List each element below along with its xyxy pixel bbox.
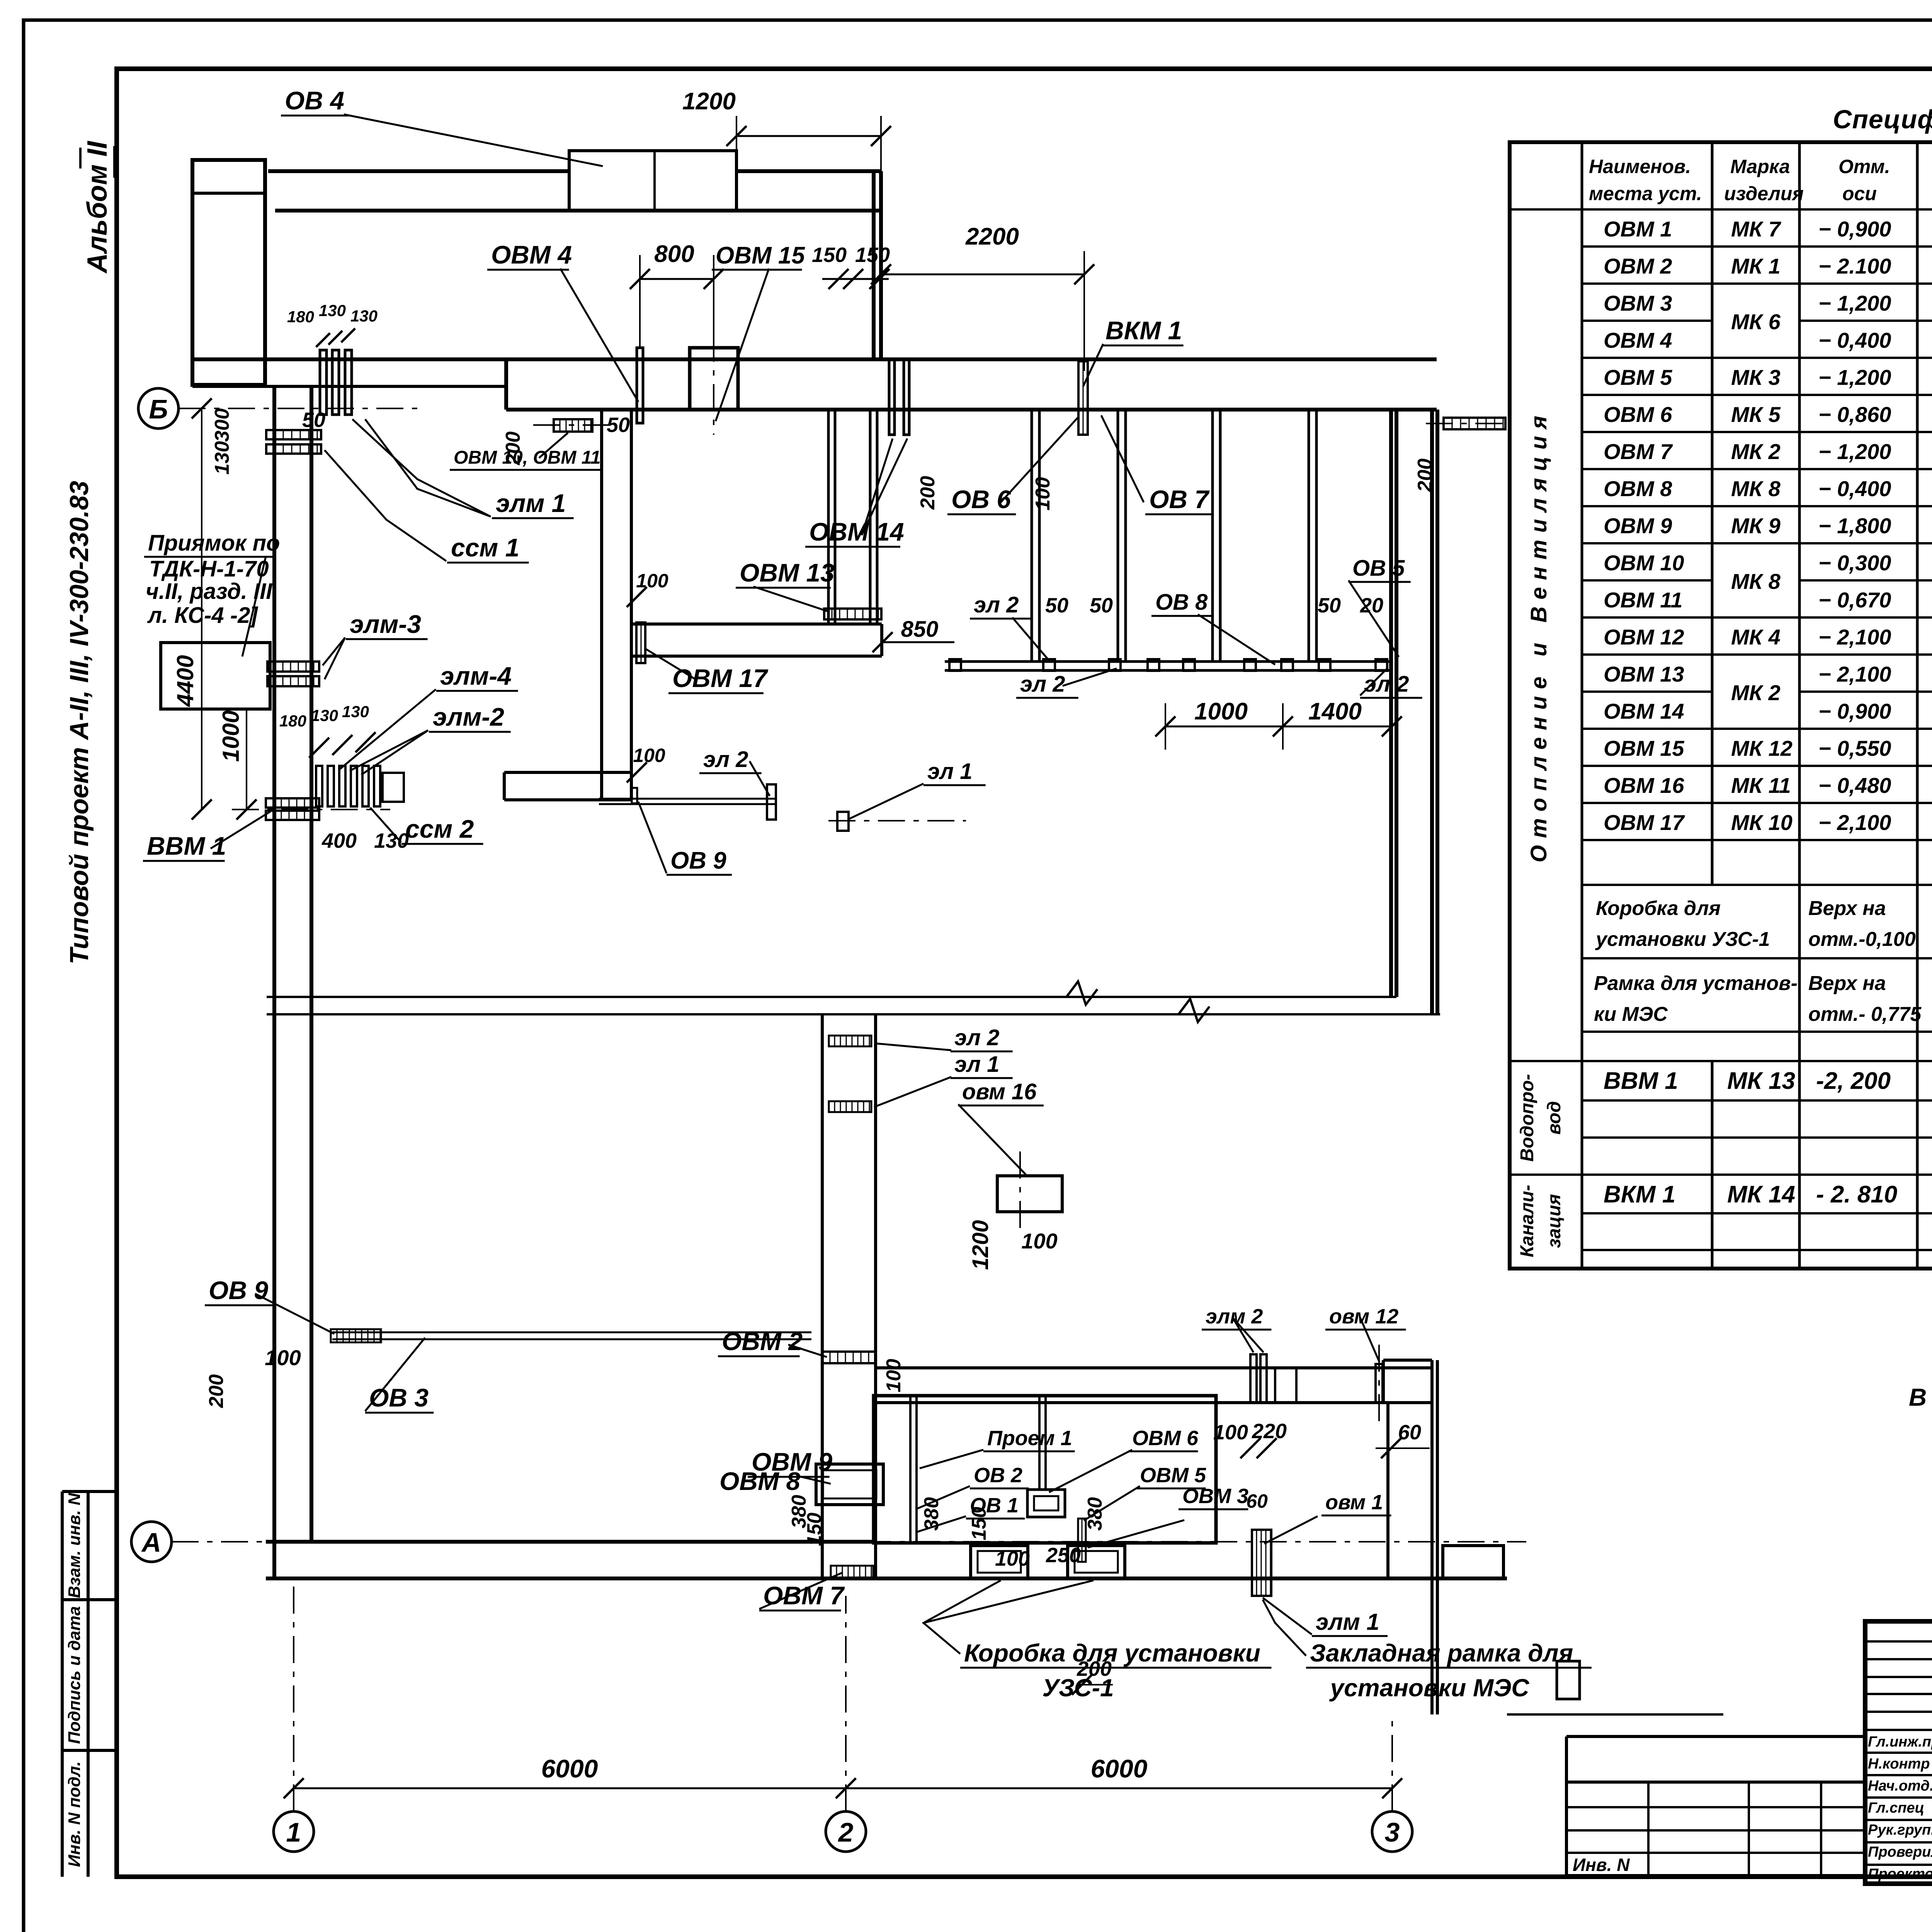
svg-text:100: 100 [995,1547,1030,1570]
svg-text:− 1,200: − 1,200 [1818,439,1891,464]
svg-text:элм 1: элм 1 [496,489,566,517]
svg-text:Нач.отд.: Нач.отд. [1868,1778,1932,1794]
svg-text:элм 2: элм 2 [1206,1305,1263,1328]
svg-text:МК 2: МК 2 [1731,439,1781,464]
svg-text:эл 2: эл 2 [974,592,1019,617]
svg-text:овм 1: овм 1 [1325,1491,1383,1514]
svg-text:МК 7: МК 7 [1731,217,1782,241]
svg-text:ссм 2: ссм 2 [405,815,474,843]
svg-text:380: 380 [1084,1497,1106,1531]
svg-text:2: 2 [838,1817,854,1847]
svg-text:эл 1: эл 1 [954,1052,999,1077]
svg-text:− 0,900: − 0,900 [1818,699,1891,723]
svg-text:100: 100 [633,745,665,766]
svg-text:100: 100 [1032,477,1054,511]
svg-text:Инв. N подл.: Инв. N подл. [65,1761,84,1867]
svg-text:МК 8: МК 8 [1731,569,1781,594]
svg-text:100: 100 [883,1359,905,1393]
svg-text:ОВ 3: ОВ 3 [369,1383,429,1412]
svg-text:Б: Б [149,394,168,424]
svg-text:ОВМ 13: ОВМ 13 [1604,662,1684,686]
svg-text:6000: 6000 [541,1754,598,1783]
svg-text:ОВМ 11: ОВМ 11 [1604,588,1682,612]
svg-text:эл 1: эл 1 [927,759,972,784]
svg-text:ОВМ 15: ОВМ 15 [1604,736,1684,760]
svg-text:МК 10: МК 10 [1731,810,1793,835]
svg-text:50: 50 [302,408,325,432]
svg-text:Инв. N: Инв. N [1573,1855,1630,1875]
svg-text:Гл.инж.пр.: Гл.инж.пр. [1868,1734,1932,1750]
svg-text:6000: 6000 [1091,1754,1148,1783]
svg-text:ч.II, разд. III: ч.II, разд. III [146,579,273,604]
svg-text:380: 380 [920,1497,943,1531]
svg-text:ОВМ 3: ОВМ 3 [1182,1485,1248,1508]
svg-text:100: 100 [636,570,668,592]
svg-text:МК 13: МК 13 [1727,1068,1795,1094]
svg-text:− 0,550: − 0,550 [1818,736,1891,760]
svg-text:130: 130 [211,441,233,475]
svg-text:130: 130 [350,307,378,325]
svg-text:ОВМ 2: ОВМ 2 [1604,254,1672,278]
svg-text:150: 150 [968,1507,990,1541]
svg-text:установки МЭС: установки МЭС [1329,1674,1530,1702]
svg-text:Проверил: Проверил [1868,1844,1932,1860]
svg-text:150: 150 [812,243,847,267]
svg-text:ОВМ 8: ОВМ 8 [1604,476,1672,501]
svg-text:элм 1: элм 1 [1316,1609,1379,1635]
svg-text:1200: 1200 [682,88,736,115]
svg-text:А: А [141,1527,162,1558]
svg-text:Верх на: Верх на [1808,897,1886,920]
svg-text:отм.-0,100: отм.-0,100 [1808,928,1916,951]
svg-text:Взам. инв. N: Взам. инв. N [65,1493,84,1598]
svg-text:эл 2: эл 2 [1020,672,1065,697]
svg-text:180: 180 [287,308,314,326]
svg-text:ОВМ 10: ОВМ 10 [1604,551,1684,575]
svg-text:МК 14: МК 14 [1727,1181,1795,1208]
svg-text:ОВМ 7: ОВМ 7 [763,1581,845,1610]
svg-text:Приямок по: Приямок по [148,531,280,556]
svg-text:МК 8: МК 8 [1731,476,1781,501]
svg-text:ОВ 9: ОВ 9 [209,1276,268,1304]
svg-text:Водопро-: Водопро- [1517,1074,1537,1162]
svg-text:Марка: Марка [1730,156,1790,177]
svg-text:50: 50 [1090,594,1113,617]
svg-text:Верх на: Верх на [1808,972,1886,995]
svg-text:ОВ 9: ОВ 9 [670,847,726,874]
svg-text:В отверстия ОВ8 вставляются: В отверстия ОВ8 вставляются решетки р150… [1909,1383,1932,1411]
svg-text:400: 400 [321,829,357,852]
svg-text:вод: вод [1544,1101,1565,1135]
svg-text:− 0,400: − 0,400 [1818,476,1891,501]
svg-text:300: 300 [211,408,233,442]
svg-text:ОВМ 3: ОВМ 3 [1604,291,1672,315]
svg-text:850: 850 [901,617,939,642]
svg-text:ОВ 4: ОВ 4 [285,86,344,115]
svg-text:Рамка для установ-: Рамка для установ- [1594,972,1798,995]
svg-text:Отопление и Вентиляция: Отопление и Вентиляция [1526,409,1551,862]
svg-text:ОВМ 6: ОВМ 6 [1604,402,1672,427]
svg-text:Закладная рамка для: Закладная рамка для [1310,1639,1573,1667]
svg-text:ОВМ 9: ОВМ 9 [1604,514,1672,538]
svg-text:50: 50 [1318,594,1341,617]
svg-text:Проем 1: Проем 1 [987,1427,1072,1450]
svg-text:1000: 1000 [218,710,244,762]
svg-text:ОВМ 2: ОВМ 2 [722,1327,803,1355]
svg-text:− 1,200: − 1,200 [1818,365,1891,389]
svg-text:60: 60 [1246,1490,1268,1512]
svg-text:ОВМ 4: ОВМ 4 [1604,328,1672,352]
svg-text:ОВМ 16: ОВМ 16 [1604,773,1684,798]
svg-text:Отм.: Отм. [1838,156,1890,177]
svg-text:ОВМ 10, ОВМ 11: ОВМ 10, ОВМ 11 [454,447,601,468]
svg-text:ОВМ 6: ОВМ 6 [1132,1427,1199,1450]
svg-text:130: 130 [342,702,369,721]
svg-text:ВКМ 1: ВКМ 1 [1604,1181,1675,1208]
svg-text:МК 5: МК 5 [1731,402,1781,427]
svg-text:20: 20 [1360,594,1383,617]
svg-text:− 1,800: − 1,800 [1818,514,1891,538]
svg-text:− 0,480: − 0,480 [1818,773,1891,798]
svg-text:ОВМ 5: ОВМ 5 [1604,365,1672,389]
svg-text:Коробка для установки: Коробка для установки [964,1639,1260,1667]
svg-text:МК 3: МК 3 [1731,365,1781,389]
svg-text:4400: 4400 [172,655,198,707]
svg-text:100: 100 [1021,1229,1057,1253]
svg-text:220: 220 [1252,1420,1287,1443]
svg-text:МК 12: МК 12 [1731,736,1793,760]
svg-text:ОВМ 14: ОВМ 14 [809,517,904,546]
svg-text:МК 6: МК 6 [1731,310,1781,334]
svg-text:− 0,670: − 0,670 [1818,588,1891,612]
svg-text:− 1,200: − 1,200 [1818,291,1891,315]
svg-text:− 2.100: − 2.100 [1818,254,1891,278]
svg-text:Коробка для: Коробка для [1596,897,1721,920]
svg-text:150: 150 [803,1513,826,1546]
svg-text:100: 100 [265,1345,301,1370]
svg-text:ОВ 5: ОВ 5 [1352,556,1405,581]
svg-text:ОВ 7: ОВ 7 [1149,485,1210,514]
svg-text:Рук.груп.: Рук.груп. [1868,1822,1932,1838]
svg-text:ОВМ 17: ОВМ 17 [672,664,769,692]
svg-text:200: 200 [1414,459,1436,493]
svg-text:3: 3 [1385,1817,1400,1847]
svg-text:УЗС-1: УЗС-1 [1042,1674,1114,1702]
svg-text:60: 60 [1398,1421,1421,1444]
svg-text:− 0,400: − 0,400 [1818,328,1891,352]
svg-text:ОВМ 7: ОВМ 7 [1604,439,1673,464]
svg-text:1000: 1000 [1194,698,1248,725]
svg-text:Альбом II: Альбом II [82,140,113,274]
svg-text:− 0,860: − 0,860 [1818,402,1891,427]
svg-text:МК 2: МК 2 [1731,680,1781,705]
svg-text:130: 130 [311,706,338,724]
svg-text:ОВМ 4: ОВМ 4 [491,240,572,269]
svg-text:50: 50 [1045,594,1068,617]
svg-text:ОВ 8: ОВ 8 [1155,590,1208,615]
svg-text:2200: 2200 [965,223,1019,250]
svg-text:овм 16: овм 16 [962,1079,1037,1104]
svg-text:− 2,100: − 2,100 [1818,625,1891,649]
svg-text:отм.- 0,775: отм.- 0,775 [1808,1003,1922,1026]
svg-text:л. КС-4 -2]: л. КС-4 -2] [147,603,258,628]
svg-text:МК 9: МК 9 [1731,514,1781,538]
svg-text:ОВ 2: ОВ 2 [974,1464,1022,1487]
svg-text:ВКМ 1: ВКМ 1 [1105,316,1182,345]
svg-text:Типовой проект А-II, III, IV: Типовой проект А-II, III, IV-300-230.83 [65,481,94,964]
svg-text:зация: зация [1544,1194,1565,1248]
svg-text:ВВМ 1: ВВМ 1 [1604,1068,1678,1094]
svg-text:ОВМ 1: ОВМ 1 [1604,217,1672,241]
svg-text:Н.контр сс: Н.контр сс [1868,1756,1932,1772]
svg-text:Наименов.: Наименов. [1589,156,1691,177]
svg-text:200: 200 [205,1374,228,1408]
svg-text:800: 800 [654,241,694,267]
svg-text:изделия: изделия [1724,183,1804,204]
svg-text:элм-2: элм-2 [433,702,504,731]
svg-text:МК 4: МК 4 [1731,625,1781,649]
svg-text:оси: оси [1842,183,1877,204]
svg-text:МК 1: МК 1 [1731,254,1781,278]
svg-text:Проектор.: Проектор. [1868,1866,1932,1882]
svg-text:эл 2: эл 2 [703,747,748,772]
svg-text:200: 200 [917,476,939,510]
svg-text:1400: 1400 [1308,698,1362,725]
svg-text:-2, 200: -2, 200 [1816,1068,1891,1094]
svg-text:Спецификация закладных детал: Спецификация закладных деталей [1833,105,1932,134]
svg-text:ОВМ 8: ОВМ 8 [719,1467,800,1495]
svg-text:МК 11: МК 11 [1731,773,1791,798]
svg-text:130: 130 [319,301,346,320]
svg-text:50: 50 [607,413,630,437]
svg-text:ТДК-Н-1-70: ТДК-Н-1-70 [149,556,269,582]
svg-text:150: 150 [855,243,890,267]
svg-text:эл 2: эл 2 [954,1025,999,1050]
svg-text:− 2,100: − 2,100 [1818,810,1891,835]
svg-text:250: 250 [1046,1544,1081,1567]
svg-text:элм-3: элм-3 [350,610,421,638]
svg-text:установки УЗС-1: установки УЗС-1 [1595,928,1770,951]
svg-text:ки МЭС: ки МЭС [1594,1003,1668,1026]
svg-text:ОВМ 5: ОВМ 5 [1140,1464,1206,1487]
svg-text:ОВМ 13: ОВМ 13 [740,558,835,587]
svg-text:ссм 1: ссм 1 [451,533,519,562]
svg-text:− 0,900: − 0,900 [1818,217,1891,241]
svg-text:1200: 1200 [968,1220,993,1270]
svg-text:ОВМ 17: ОВМ 17 [1604,810,1685,835]
svg-text:130: 130 [374,829,409,852]
svg-text:ОВМ 12: ОВМ 12 [1604,625,1684,649]
svg-text:Подпись и дата: Подпись и дата [65,1606,84,1744]
svg-text:1: 1 [286,1817,301,1847]
svg-text:180: 180 [279,712,306,730]
svg-text:ОВМ 15: ОВМ 15 [716,242,805,269]
svg-text:− 0,300: − 0,300 [1818,551,1891,575]
svg-text:элм-4: элм-4 [440,662,512,690]
svg-text:ОВМ 14: ОВМ 14 [1604,699,1684,723]
svg-text:Канали-: Канали- [1517,1185,1537,1257]
svg-text:100: 100 [1213,1421,1248,1444]
svg-text:- 2. 810: - 2. 810 [1816,1181,1897,1208]
svg-text:Гл.спец: Гл.спец [1868,1800,1924,1816]
svg-text:места уст.: места уст. [1589,183,1702,204]
svg-text:− 2,100: − 2,100 [1818,662,1891,686]
